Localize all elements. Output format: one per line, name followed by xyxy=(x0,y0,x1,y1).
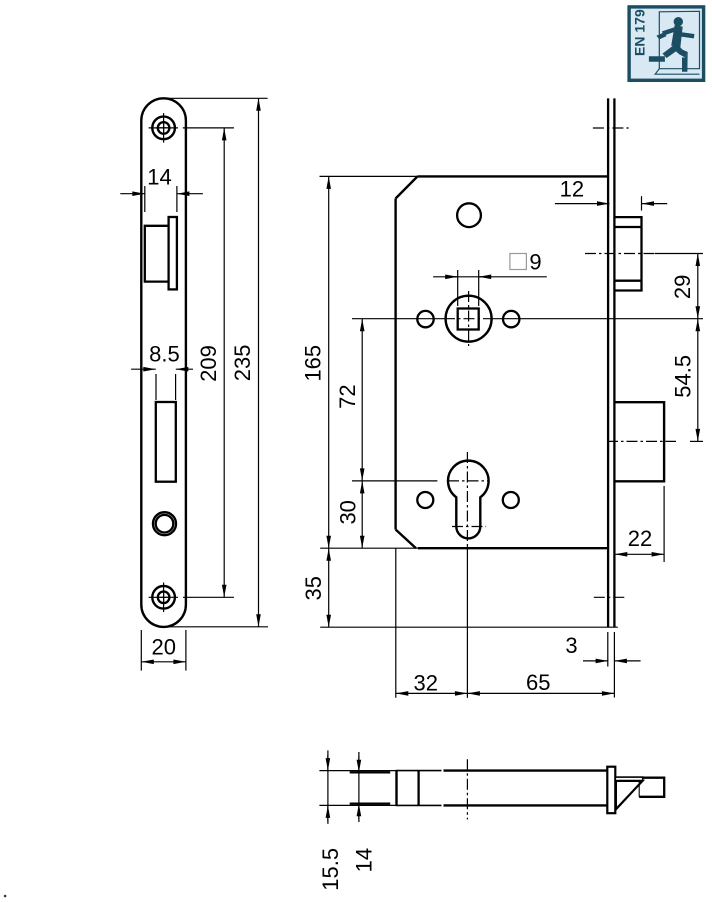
svg-text:14: 14 xyxy=(352,848,377,872)
deadbolt centerline xyxy=(607,440,676,442)
stray dot bottom left xyxy=(4,895,7,898)
latch bolt (case view) xyxy=(615,217,641,290)
dim 29 (latch to follower) xyxy=(670,254,698,319)
faceplate front view outline xyxy=(141,98,186,627)
svg-text:20: 20 xyxy=(151,635,175,660)
cylinder centerline horizontal xyxy=(352,480,437,482)
faceplate edge-on (case view) xyxy=(608,98,614,627)
dim 32 (backset left) xyxy=(396,548,468,698)
bottom view latch guide line xyxy=(417,771,419,806)
bottom view deadbolt extended xyxy=(639,778,664,797)
dim 14 (bottom view) xyxy=(352,752,377,872)
svg-text:9: 9 xyxy=(529,250,541,275)
centerline screw top tick xyxy=(593,127,629,129)
svg-text:235: 235 xyxy=(230,345,255,382)
dim 9 (follower square) xyxy=(433,250,547,307)
dim 65 (backset) xyxy=(467,670,614,695)
cylinder lobe centerline xyxy=(452,526,486,528)
svg-text:12: 12 xyxy=(560,177,584,202)
svg-text:32: 32 xyxy=(413,671,437,696)
dim 3 (faceplate thickness) xyxy=(565,632,640,698)
svg-text:15.5: 15.5 xyxy=(318,848,343,891)
euro cylinder hole xyxy=(448,461,489,539)
latch centerline xyxy=(585,253,655,255)
EN179 icon box xyxy=(629,7,704,80)
dim 165 (case height) xyxy=(301,176,418,548)
svg-text:165: 165 xyxy=(301,345,326,382)
svg-text:22: 22 xyxy=(628,526,652,551)
follower square 9mm xyxy=(458,309,479,330)
follower centerline vertical xyxy=(468,291,470,346)
dim 22 (deadbolt throw) xyxy=(615,486,664,562)
lock case outline xyxy=(396,176,607,548)
dim 12 (latch projection) xyxy=(555,177,667,211)
top screw hole xyxy=(149,113,178,143)
EN179 running man xyxy=(649,17,695,72)
svg-text:209: 209 xyxy=(196,345,221,382)
cylinder centerline vertical xyxy=(466,452,468,546)
cylinder side holes xyxy=(417,492,433,508)
bottom view latch bevel xyxy=(616,781,643,809)
follower centerline horizontal xyxy=(352,318,444,320)
latch opening front xyxy=(145,226,170,282)
bottom view latch top bar xyxy=(615,777,642,781)
dim 54.5 (follower to deadbolt) xyxy=(671,319,698,442)
cylinder ring front xyxy=(153,512,176,535)
dim 15.5 xyxy=(318,750,343,890)
svg-text:14: 14 xyxy=(147,165,171,190)
EN179 door frame xyxy=(655,11,699,74)
dim 14 (latch width) xyxy=(120,165,203,213)
centerline screw bottom tick xyxy=(594,596,626,598)
deadbolt slot front xyxy=(156,402,176,482)
dim 30 (cylinder to case bottom) xyxy=(336,481,363,548)
bottom view thin outer lines (15.5) xyxy=(319,771,395,806)
dim 72 (follower to cylinder) xyxy=(335,319,362,481)
top hole xyxy=(457,203,481,227)
dim 35 (case bottom to plate end) xyxy=(301,548,618,627)
latch lip front xyxy=(169,217,177,289)
dim 20 (plate width) xyxy=(141,630,186,671)
svg-text:54.5: 54.5 xyxy=(671,355,696,398)
bottom screw hole xyxy=(149,583,178,613)
svg-text:35: 35 xyxy=(301,576,326,600)
svg-text:72: 72 xyxy=(335,384,360,408)
svg-text:29: 29 xyxy=(670,275,695,299)
svg-text:30: 30 xyxy=(336,500,361,524)
bottom view case body xyxy=(395,771,397,806)
bottom view thick inner lines (14) xyxy=(350,772,391,803)
deadbolt (case view) xyxy=(615,402,664,481)
bottom view deadbolt left edge xyxy=(638,781,640,797)
svg-text:EN 179: EN 179 xyxy=(631,9,647,56)
bottom view cylinder centerline xyxy=(466,759,468,819)
svg-text:65: 65 xyxy=(526,670,550,695)
follower side holes xyxy=(417,311,433,327)
dim 235 (plate length) xyxy=(165,98,268,627)
follower circle xyxy=(446,296,492,342)
svg-text:3: 3 xyxy=(565,633,577,658)
dim 209 (screw centers) xyxy=(183,128,234,597)
svg-text:8.5: 8.5 xyxy=(149,342,180,367)
dim 8.5 (slot width) xyxy=(131,342,193,401)
bottom view faceplate bar xyxy=(607,767,615,814)
